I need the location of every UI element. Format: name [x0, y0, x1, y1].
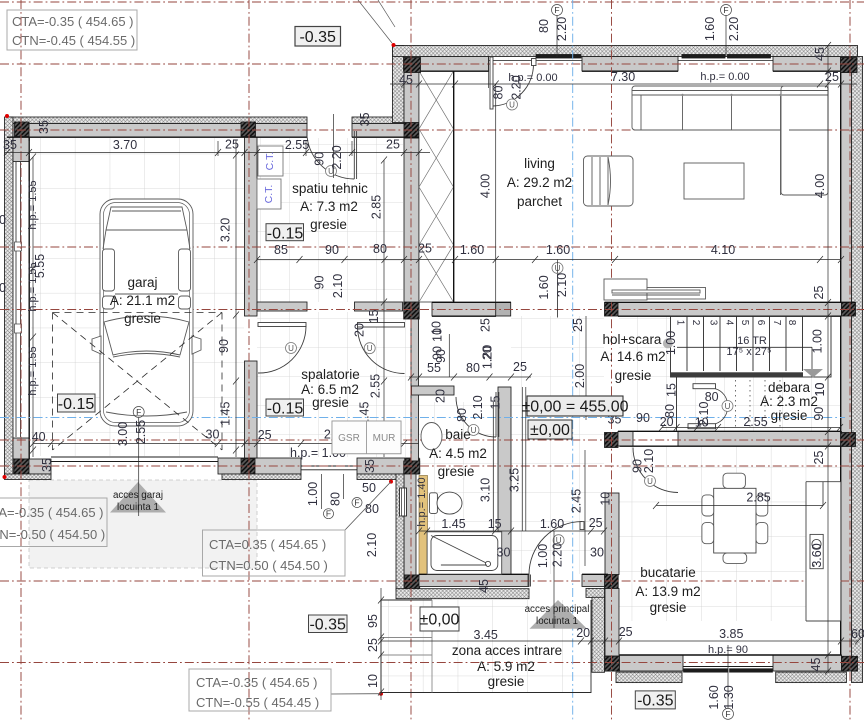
door debara double — [688, 384, 728, 429]
north wall left section masonry right of door — [352, 124, 419, 138]
svg-text:90: 90 — [812, 407, 826, 421]
svg-text:2.20: 2.20 — [510, 75, 524, 99]
roof leader lines top-left of living — [358, 0, 395, 43]
svg-text:A: 2.3 m2: A: 2.3 m2 — [760, 394, 818, 409]
south wall bucatarie masonry west — [620, 655, 684, 671]
svg-text:1.60: 1.60 — [540, 517, 564, 531]
svg-text:40: 40 — [32, 430, 46, 444]
column spalatorie south — [241, 459, 255, 474]
svg-text:25: 25 — [571, 318, 585, 332]
svg-text:-0.35: -0.35 — [637, 693, 674, 710]
tan duct strip baie — [419, 476, 428, 576]
svg-text:U: U — [725, 402, 731, 411]
dim line south y641 — [378, 638, 861, 645]
west wall garage masonry top corner — [13, 124, 29, 162]
svg-text:2.10: 2.10 — [642, 449, 656, 473]
svg-text:F: F — [136, 407, 141, 417]
svg-text:15: 15 — [489, 396, 503, 410]
svg-text:gresie: gresie — [650, 600, 687, 615]
svg-text:gresie: gresie — [771, 408, 808, 423]
svg-text:F: F — [326, 509, 331, 519]
TV cabinet living — [604, 279, 706, 300]
svg-text:35: 35 — [40, 458, 54, 472]
wall spatiu-tehnic/spalatorie west stub — [257, 302, 307, 311]
stair direction triangle — [803, 369, 823, 378]
svg-text:1.45: 1.45 — [441, 517, 465, 531]
svg-text:gresie: gresie — [438, 464, 475, 479]
column spalatorie south-east — [405, 459, 420, 474]
CTA box bottom with leader — [189, 669, 381, 711]
svg-text:5: 5 — [739, 320, 750, 326]
armchair in living — [584, 156, 634, 206]
door spatiu tehnic north (90/2.20) — [307, 131, 357, 179]
door spatiu tehnic south (90/2.10) — [258, 323, 306, 374]
bucatarie south window — [683, 666, 773, 668]
svg-text:3.00: 3.00 — [116, 422, 130, 446]
kitchen west wall masonry upper — [605, 493, 619, 575]
axis horizontal y309 — [0, 309, 864, 311]
room label zona acces — [452, 643, 562, 689]
svg-text:20: 20 — [353, 323, 367, 337]
svg-text:25: 25 — [418, 242, 432, 256]
svg-text:-0.15: -0.15 — [267, 226, 304, 243]
svg-text:CTN=-0.55 ( 454.45 ): CTN=-0.55 ( 454.45 ) — [196, 695, 319, 710]
svg-text:parchet: parchet — [517, 194, 562, 209]
GSR MUR box — [332, 421, 401, 454]
wall spatiu-tehnic/spalatorie east segment — [355, 302, 403, 311]
garage south insulation — [5, 474, 52, 480]
triangle label acces garaj — [113, 490, 163, 513]
svg-text:25: 25 — [812, 451, 826, 465]
west wall living masonry vertical — [404, 71, 419, 123]
spalatorie south wall masonry east — [357, 458, 419, 474]
room label debara — [760, 380, 818, 423]
west wall baie masonry — [404, 474, 416, 575]
dim texts south line — [474, 625, 864, 656]
living north glass door window sill — [489, 60, 582, 62]
door living/hol (1.60/2.10) — [557, 273, 559, 318]
svg-text:4.00: 4.00 — [813, 174, 827, 198]
svg-text:1.60: 1.60 — [703, 17, 717, 41]
svg-text:1.20: 1.20 — [480, 345, 494, 369]
svg-text:U: U — [288, 344, 294, 353]
svg-text:25: 25 — [812, 286, 826, 300]
svg-text:25: 25 — [513, 360, 527, 374]
svg-text:3.20: 3.20 — [219, 218, 233, 242]
room label living — [507, 156, 572, 209]
svg-text:1.60: 1.60 — [707, 685, 721, 709]
svg-text:1.00: 1.00 — [664, 331, 678, 355]
svg-text:CTN=-0.45 ( 454.55 ): CTN=-0.45 ( 454.55 ) — [12, 33, 135, 48]
GSR MUR box — [332, 421, 401, 454]
CTA box top-left — [7, 10, 137, 50]
wall living/hol segment east — [618, 303, 842, 317]
svg-text:80: 80 — [373, 242, 387, 256]
svg-text:80: 80 — [537, 19, 551, 33]
svg-text:90: 90 — [313, 276, 327, 290]
marker F top 1 — [552, 5, 563, 58]
svg-text:h.p.= 1.55: h.p.= 1.55 — [27, 346, 39, 395]
svg-text:2.85: 2.85 — [370, 195, 384, 219]
svg-text:95: 95 — [366, 614, 380, 628]
wall garage/spatiu-tehnic upper — [245, 137, 258, 316]
column living north-east redraw — [841, 58, 858, 73]
north wall living masonry segment 1 — [404, 57, 489, 72]
vertical dim line x384 spatiu tehnic east — [381, 157, 387, 458]
U balloons — [286, 99, 734, 546]
texts 50 80 spalatorie markers — [362, 481, 379, 516]
zona acces intrare floor — [381, 600, 591, 692]
vertical dim line east x828 — [825, 42, 831, 675]
kitchen west wall masonry lower — [605, 589, 619, 657]
west wall living insulation vertical — [393, 46, 405, 123]
vertical dim baie x493.5 — [493, 402, 495, 531]
svg-text:1.60: 1.60 — [460, 243, 484, 257]
axis vertical x850 — [849, 0, 851, 720]
C.T. boiler box 1 — [258, 146, 283, 176]
bucatarie floor — [619, 446, 840, 621]
svg-text:20: 20 — [576, 626, 590, 640]
svg-text:2.85: 2.85 — [746, 491, 770, 505]
dim texts baie hol line — [427, 360, 604, 560]
svg-text:90: 90 — [217, 339, 231, 353]
svg-text:A: 4.5 m2: A: 4.5 m2 — [429, 446, 487, 461]
wall hol/bucatarie horizontal west segment — [618, 432, 633, 447]
dim line baie-hol y531 — [416, 528, 607, 535]
vertical dim x585 entry — [584, 450, 586, 566]
east wall insulation — [852, 57, 863, 683]
column kitchen west top — [605, 433, 619, 448]
room label garaj — [110, 275, 175, 326]
svg-text:locuinta 1: locuinta 1 — [117, 502, 159, 513]
svg-text:2.55: 2.55 — [369, 374, 383, 398]
level box -0.35 top — [295, 27, 341, 47]
svg-text:17⁵ x 27⁵: 17⁵ x 27⁵ — [726, 346, 771, 358]
north wall left section insulation — [7, 117, 307, 124]
svg-text:8: 8 — [786, 320, 797, 326]
svg-text:2.00: 2.00 — [573, 364, 587, 388]
svg-text:acces principal: acces principal — [525, 604, 590, 615]
baie partition dim double line x522-526 — [521, 387, 523, 531]
sofa in living — [632, 86, 828, 195]
svg-text:80: 80 — [492, 86, 506, 100]
marker F garage — [133, 407, 144, 517]
svg-text:80: 80 — [466, 361, 480, 375]
driveway apron in front of garage — [29, 480, 257, 568]
svg-text:C.T.: C.T. — [263, 185, 275, 204]
svg-text:25: 25 — [619, 625, 633, 639]
south wall baie-entry insulation — [396, 589, 529, 599]
garage south wall corner masonry — [13, 459, 51, 474]
heavy wall face lines — [7, 71, 856, 655]
coffee table living — [684, 163, 744, 199]
svg-text:1.00: 1.00 — [811, 329, 825, 353]
column garage/tehnic north — [241, 122, 256, 137]
svg-text:C.T.: C.T. — [264, 152, 276, 171]
marker F kitchen south — [723, 645, 734, 719]
south wall bucatarie masonry east — [773, 655, 842, 671]
axis horizontal y440 — [0, 439, 864, 441]
garage door swing dashed X — [53, 313, 223, 451]
svg-text:U: U — [647, 477, 653, 486]
stair edge bar — [671, 372, 804, 377]
vertical dim x586 hol — [585, 316, 587, 420]
svg-text:zona acces intrare: zona acces intrare — [452, 643, 562, 658]
svg-text:7: 7 — [771, 320, 782, 326]
svg-text:80: 80 — [365, 502, 379, 516]
svg-text:35: 35 — [37, 120, 51, 134]
svg-text:locuinta 1: locuinta 1 — [536, 616, 578, 627]
svg-text:15: 15 — [665, 383, 679, 397]
marker F spalatorie small 1 — [322, 474, 334, 519]
column spalatorie north-east — [404, 302, 420, 319]
west wall baie insulation — [396, 474, 404, 590]
level box -0.15 spatiu tehnic — [266, 224, 304, 243]
north wall living masonry segment 3 — [773, 57, 852, 72]
drywall X band living west — [419, 71, 454, 302]
axis horizontal y247 — [0, 246, 864, 248]
dim texts horizontal top — [3, 70, 839, 257]
svg-text:30: 30 — [590, 546, 604, 560]
level box +-0,00 entrance — [420, 607, 460, 631]
column top-left garage — [15, 122, 30, 137]
svg-text:25: 25 — [258, 428, 272, 442]
svg-text:bucatarie: bucatarie — [640, 565, 696, 580]
marker F top 2 — [721, 5, 732, 58]
svg-text:4.10: 4.10 — [711, 243, 735, 257]
svg-text:gresie: gresie — [615, 368, 652, 383]
red corner dots — [3, 43, 396, 696]
dim line living top y84 — [390, 57, 857, 88]
door hol/bucatarie (90/2.10) — [633, 448, 678, 493]
svg-text:4.00: 4.00 — [479, 174, 493, 198]
wall hol/bucatarie horizontal east segment — [678, 432, 842, 447]
svg-text:±0,00 = 455.00: ±0,00 = 455.00 — [521, 399, 628, 416]
column at living west wall top corner — [404, 58, 421, 73]
east wall masonry — [841, 73, 852, 657]
garaj floor — [31, 138, 244, 456]
debara wardrobe dotted rods — [736, 380, 781, 428]
column living/hol east — [605, 303, 619, 317]
svg-text:2.55: 2.55 — [134, 420, 148, 444]
door entrance (1.00/2.20) — [528, 522, 584, 587]
svg-text:85: 85 — [274, 243, 288, 257]
svg-text:CTA=-0.35 ( 454.65 ): CTA=-0.35 ( 454.65 ) — [196, 675, 318, 690]
svg-text:h.p.= 90: h.p.= 90 — [708, 644, 748, 656]
wall spalatorie/baie — [411, 319, 419, 461]
vertical dim line x233.5 — [233, 140, 239, 457]
level box -0.15 garage — [58, 394, 96, 413]
blue axis horizontal y417.5 — [0, 417, 845, 419]
jamb block living/hol — [496, 303, 511, 317]
entrance marker line — [553, 531, 555, 628]
baie north wall — [412, 386, 455, 395]
acces garaj triangle — [110, 482, 166, 513]
svg-text:A: 13.9 m2: A: 13.9 m2 — [635, 584, 700, 599]
axis vertical x611.5 — [611, 0, 613, 720]
north wall left section masonry left of door — [7, 124, 307, 138]
floor tile grids — [31, 138, 840, 692]
svg-text:90: 90 — [313, 152, 327, 166]
svg-text:2.55: 2.55 — [743, 415, 767, 429]
svg-text:hol+scara: hol+scara — [603, 332, 662, 347]
svg-text:debara: debara — [768, 380, 811, 395]
stairs — [663, 316, 831, 378]
dim texts garage south — [32, 428, 348, 445]
svg-text:0: 0 — [0, 281, 6, 295]
south wall bucatarie insulation — [616, 672, 682, 683]
column bucatarie south-east — [842, 656, 858, 671]
svg-text:20: 20 — [434, 389, 448, 403]
svg-text:F: F — [354, 498, 359, 508]
west wall garage masonry bottom corner — [13, 438, 29, 459]
svg-text:30: 30 — [497, 546, 511, 560]
svg-text:1.00: 1.00 — [536, 544, 550, 568]
dim line garage south y443.5 — [30, 440, 419, 447]
svg-text:10: 10 — [813, 383, 827, 397]
marker F spalatorie small 2 — [344, 474, 363, 508]
axis horizontal y2 — [0, 1, 864, 3]
baie washbasin — [421, 423, 442, 450]
room label spalatorie — [301, 367, 360, 410]
svg-text:2.10: 2.10 — [555, 273, 569, 297]
axis vertical x21 — [20, 0, 22, 720]
west wall garage window glazing — [15, 162, 22, 437]
column at living west wall top corner redraw — [404, 58, 421, 73]
wall garage/spalatorie lower — [245, 361, 258, 458]
svg-text:25: 25 — [366, 638, 380, 652]
svg-text:h.p.= 1.40: h.p.= 1.40 — [416, 477, 428, 526]
level box +-0,00 hol — [528, 420, 572, 439]
doors — [258, 57, 733, 587]
level boxes — [0, 10, 675, 711]
axis horizontal y581 — [0, 580, 864, 582]
zona acces boundary — [381, 600, 591, 693]
kitchen west wall insulation vertical — [592, 597, 605, 672]
svg-text:CTA=0.35 ( 454.65 ): CTA=0.35 ( 454.65 ) — [209, 537, 326, 552]
furniture and fixtures — [53, 86, 841, 693]
svg-text:-0.35: -0.35 — [299, 29, 336, 46]
door living north french (80/2.20) — [490, 57, 536, 109]
vertical line hol door x557.5 — [557, 260, 559, 274]
svg-text:2.20: 2.20 — [330, 145, 344, 169]
svg-text:±0,00: ±0,00 — [530, 422, 570, 439]
dim texts debara — [608, 390, 771, 505]
vertical dim line garage west x33 — [30, 154, 36, 458]
F letters — [136, 5, 731, 719]
entry east insulation — [586, 588, 605, 597]
south wall baie-entry masonry — [419, 575, 529, 587]
dining table bucatarie — [702, 473, 768, 563]
svg-text:U: U — [367, 344, 373, 353]
svg-text:15: 15 — [488, 517, 502, 531]
svg-text:MUR: MUR — [373, 433, 396, 444]
dim line bucatarie 2.85 y505.4 — [653, 502, 826, 509]
svg-text:CTN=0.50 ( 454.50 ): CTN=0.50 ( 454.50 ) — [209, 558, 328, 573]
svg-text:2.10: 2.10 — [365, 533, 379, 557]
dim line north low section y152.5 — [4, 141, 430, 156]
north wall living masonry segment 2 — [582, 57, 678, 72]
svg-text:-0.15: -0.15 — [58, 396, 95, 413]
svg-text:90: 90 — [431, 346, 445, 360]
room label hol+scara — [600, 332, 665, 383]
door baie (80/2.10) — [456, 392, 499, 437]
room label spatiu tehnic — [292, 181, 368, 232]
svg-text:80: 80 — [329, 492, 343, 506]
svg-text:h.p.= 1.55: h.p.= 1.55 — [27, 180, 39, 229]
svg-text:2.20: 2.20 — [551, 543, 565, 567]
debara left partition — [676, 377, 678, 431]
C.T. boiler box 2 — [257, 179, 281, 209]
svg-text:living: living — [524, 156, 555, 171]
svg-text:1.30: 1.30 — [722, 685, 736, 709]
baie toilet — [429, 492, 462, 514]
svg-text:6: 6 — [755, 320, 766, 326]
svg-text:90: 90 — [636, 411, 650, 425]
svg-text:10: 10 — [599, 492, 613, 506]
living north window 2 bars — [682, 55, 725, 59]
column kitchen south-west — [605, 656, 620, 671]
svg-text:spalatorie: spalatorie — [301, 367, 360, 382]
svg-text:A: 21.1 m2: A: 21.1 m2 — [110, 293, 175, 308]
svg-text:U: U — [509, 101, 515, 110]
svg-text:3.60: 3.60 — [810, 543, 824, 567]
svg-text:25: 25 — [225, 138, 239, 152]
svg-text:A: 5.9 m2: A: 5.9 m2 — [477, 659, 535, 674]
svg-text:gresie: gresie — [124, 311, 161, 326]
svg-text:gresie: gresie — [312, 395, 349, 410]
spalatorie floor — [257, 312, 411, 457]
svg-text:3.10: 3.10 — [479, 478, 493, 502]
svg-text:2.55: 2.55 — [285, 138, 309, 152]
svg-text:1.60: 1.60 — [537, 275, 551, 299]
axis vertical x411 — [410, 0, 412, 720]
svg-text:35: 35 — [363, 459, 377, 473]
svg-text:1: 1 — [674, 320, 685, 326]
living north door lintel bar — [536, 55, 581, 59]
svg-text:acces garaj: acces garaj — [113, 490, 163, 501]
svg-text:spatiu tehnic: spatiu tehnic — [292, 181, 368, 196]
svg-text:25: 25 — [825, 70, 839, 84]
svg-text:2: 2 — [690, 320, 701, 326]
svg-text:45: 45 — [809, 658, 823, 672]
svg-text:25: 25 — [386, 138, 400, 152]
column at living west top — [404, 123, 419, 139]
column living north-east — [841, 58, 858, 73]
baie west window — [400, 488, 407, 516]
svg-text:CTA=-0.35 ( 454.65 ): CTA=-0.35 ( 454.65 ) — [12, 14, 134, 29]
svg-text:3.45: 3.45 — [474, 628, 498, 642]
svg-text:7.30: 7.30 — [611, 70, 635, 84]
svg-text:baie: baie — [445, 427, 471, 442]
svg-text:3.85: 3.85 — [719, 627, 743, 641]
svg-text:A: 14.6 m2: A: 14.6 m2 — [600, 349, 665, 364]
svg-text:80: 80 — [663, 404, 677, 418]
svg-text:-0.35: -0.35 — [309, 617, 346, 634]
svg-text:garaj: garaj — [127, 275, 157, 290]
blue axis vertical x572.7 — [572, 0, 574, 720]
svg-text:3.25: 3.25 — [508, 468, 522, 492]
svg-text:F: F — [725, 709, 730, 719]
baie shower — [427, 532, 502, 574]
wall living/hol segment west — [432, 303, 496, 317]
svg-text:10: 10 — [431, 328, 445, 342]
car in garage — [92, 199, 201, 426]
hol+scara floor — [511, 316, 604, 574]
svg-text:gresie: gresie — [488, 674, 525, 689]
svg-text:4: 4 — [724, 320, 735, 326]
svg-text:±0,00: ±0,00 — [420, 612, 460, 629]
